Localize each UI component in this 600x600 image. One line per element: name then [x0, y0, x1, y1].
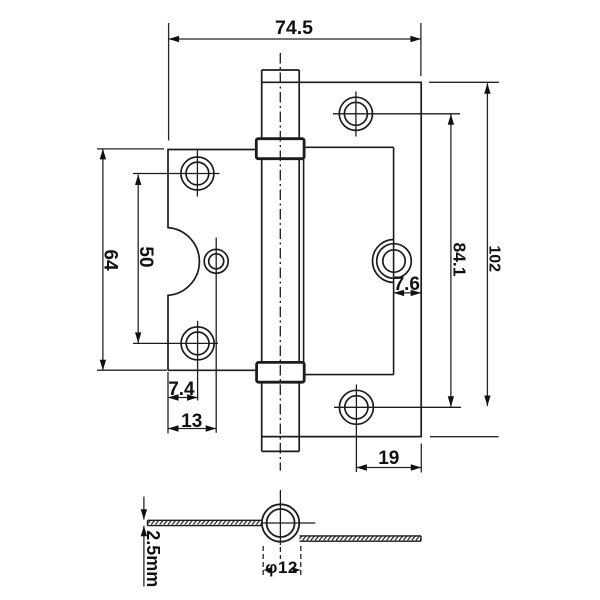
bottom-left screw hole — [133, 321, 218, 401]
right leaf outline — [262, 82, 422, 436]
side view right plate — [300, 536, 422, 541]
dimension 7.6 — [394, 292, 422, 294]
right leaf recess right edge — [393, 147, 395, 374]
svg-text:19: 19 — [378, 448, 399, 469]
hinge pin centerline — [279, 53, 281, 471]
dimension 19 — [356, 444, 421, 473]
barrel bottom edge — [262, 450, 300, 452]
svg-text:13: 13 — [181, 411, 202, 432]
right leaf recess bottom edge — [304, 374, 394, 376]
dimension 74.5 — [169, 23, 421, 141]
small pilot hole — [204, 238, 228, 433]
side view barrel circle — [261, 490, 315, 545]
bottom knuckle — [257, 362, 305, 382]
dimension phi 12 — [263, 546, 301, 576]
svg-text:74.5: 74.5 — [275, 17, 313, 39]
svg-text:φ12: φ12 — [265, 558, 298, 577]
barrel right edge — [298, 70, 300, 451]
top-left screw hole — [133, 151, 220, 197]
top knuckle — [256, 139, 304, 159]
dimension 13 — [168, 404, 216, 434]
left leaf bottom edge — [168, 369, 257, 371]
side view left plate — [148, 520, 263, 525]
dimension 84.1 — [450, 114, 452, 406]
left leaf outline — [168, 150, 257, 371]
svg-text:50: 50 — [135, 246, 156, 267]
svg-text:84.1: 84.1 — [450, 242, 470, 276]
big pivot hole — [372, 240, 411, 283]
dimension 102 — [429, 82, 499, 436]
dimension 64 — [97, 149, 167, 370]
top-right screw hole — [333, 92, 460, 137]
svg-text:7.6: 7.6 — [394, 274, 420, 295]
svg-text:102: 102 — [485, 245, 502, 272]
svg-text:64: 64 — [99, 249, 120, 271]
dimension 50 — [137, 175, 139, 343]
dimension 2.5mm — [143, 497, 145, 587]
barrel top edge — [262, 69, 300, 71]
right leaf recess top edge — [304, 146, 394, 148]
svg-text:7.4: 7.4 — [168, 379, 195, 400]
right leaf recess left edge — [303, 159, 305, 363]
bottom-right screw hole — [334, 385, 461, 473]
barrel left edge — [261, 70, 263, 451]
svg-text:2.5mm: 2.5mm — [143, 530, 163, 587]
dimension 7.4 — [168, 372, 198, 404]
